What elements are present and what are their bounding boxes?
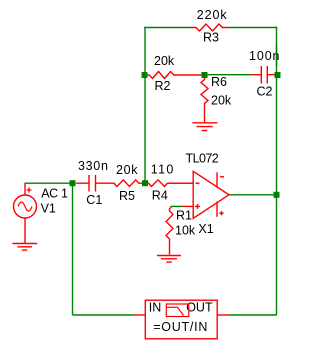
resistor R5 (lead shared with C1 right plate) <box>96 180 145 187</box>
wire right bus overlay segment (clips 100n label) <box>276 45 278 66</box>
node junction R2/R3 feedback left <box>142 72 148 78</box>
op-amp plus input marker <box>195 204 200 209</box>
resistor R3 <box>192 24 230 31</box>
op-amp V- power stub (bottom) <box>216 202 218 217</box>
svg-text:R5: R5 <box>119 189 135 203</box>
wire left feedback vertical <box>144 27 146 183</box>
V1 bottom lead <box>24 218 26 244</box>
node junction R6 top <box>202 72 208 78</box>
svg-text:TL072: TL072 <box>186 152 219 166</box>
meter OUT lead <box>217 314 229 316</box>
op-amp V+ power stub (top) <box>216 172 218 186</box>
V1 top lead <box>24 183 26 195</box>
ground under V1 <box>12 244 37 251</box>
svg-text:R2: R2 <box>155 79 171 93</box>
node junction C2 right bus <box>275 72 281 78</box>
svg-text:C2: C2 <box>257 85 273 99</box>
wire V1 to node A <box>25 182 73 184</box>
svg-text:R6: R6 <box>211 75 227 89</box>
svg-text:220k: 220k <box>197 8 228 22</box>
wire meter OUT to right bus <box>230 314 277 316</box>
svg-text:R1: R1 <box>176 209 192 223</box>
node A junction V1 top <box>70 180 76 186</box>
ground under R1 <box>157 256 181 263</box>
ground under R6 <box>192 123 217 131</box>
svg-text:V1: V1 <box>41 202 56 216</box>
transfer meter box <box>145 300 217 339</box>
op-amp plus supply marker <box>219 211 223 215</box>
resistor R1 vertical with bent lead <box>166 207 173 255</box>
wire bottom left to meter IN <box>73 314 134 316</box>
node junction R4 left / feedback bottom <box>142 180 148 186</box>
op-amp X1 TL072 triangle <box>193 171 229 218</box>
wire left vertical from node A down <box>72 183 74 315</box>
capacitor C1 <box>76 175 96 192</box>
AC source V1 circle <box>14 195 37 218</box>
svg-text:330n: 330n <box>78 159 109 173</box>
svg-text:=OUT/IN: =OUT/IN <box>153 320 208 334</box>
op-amp minus supply marker <box>220 176 224 178</box>
op-amp minus input lead (from R4) <box>169 182 194 184</box>
svg-text:AC 1: AC 1 <box>41 187 68 201</box>
wire top horizontal left of R3 <box>144 27 192 29</box>
svg-text:110: 110 <box>151 163 175 177</box>
resistor R6 vertical <box>201 78 208 123</box>
wire between R2 junction and C2 <box>205 74 253 76</box>
svg-text:C1: C1 <box>86 193 102 207</box>
svg-text:R3: R3 <box>203 31 219 45</box>
wire op-amp output <box>229 194 277 196</box>
V1 sine wave <box>18 202 32 211</box>
meter icon response curve <box>166 307 183 315</box>
svg-text:10k: 10k <box>175 224 196 238</box>
V1 plus polarity marker <box>27 188 32 193</box>
svg-text:IN: IN <box>149 301 162 315</box>
wire top horizontal right of R3 <box>230 27 278 29</box>
svg-text:20k: 20k <box>211 94 232 108</box>
svg-text:OUT: OUT <box>186 301 213 315</box>
meter IN lead <box>133 314 145 316</box>
op-amp minus input marker <box>196 182 200 184</box>
meter icon rectangle <box>166 304 189 317</box>
capacitor C2 <box>252 66 274 84</box>
svg-text:20k: 20k <box>154 54 175 68</box>
wire op-amp plus input stub <box>171 205 183 207</box>
wire right vertical bus <box>276 27 278 315</box>
svg-text:100n: 100n <box>249 49 280 63</box>
svg-text:20k: 20k <box>116 163 138 177</box>
node junction output right bus <box>274 192 280 198</box>
svg-text:X1: X1 <box>198 222 213 236</box>
svg-text:R4: R4 <box>152 189 168 203</box>
resistor R4 <box>145 180 195 187</box>
op-amp plus input lead <box>183 205 194 207</box>
resistor R2 <box>147 72 203 79</box>
